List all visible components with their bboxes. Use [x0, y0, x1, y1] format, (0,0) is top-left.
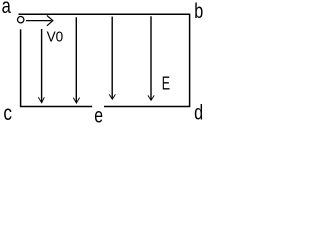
svg-text:a: a	[2, 0, 11, 18]
svg-text:V0: V0	[47, 29, 64, 46]
field arrow 2 head	[73, 98, 79, 104]
plate right edge b-d	[189, 14, 191, 106]
svg-text:E: E	[162, 72, 170, 93]
svg-text:c: c	[3, 101, 12, 123]
plate left edge a-c	[20, 29, 22, 106]
plate bottom edge e-d segment	[104, 106, 190, 108]
svg-text:e: e	[94, 104, 103, 123]
svg-text:d: d	[194, 100, 203, 123]
field arrow 1 shaft	[41, 29, 43, 102]
field arrow 3 shaft	[111, 17, 113, 99]
velocity arrow shaft v0	[26, 20, 52, 22]
plate top edge a-b	[19, 13, 191, 15]
field arrow 1 head	[38, 97, 44, 103]
field arrow 4 shaft	[150, 16, 152, 100]
plate bottom edge c-e segment	[20, 106, 92, 108]
field arrow 3 head	[109, 94, 115, 99]
field arrow 2 shaft	[75, 17, 77, 102]
charge circle at corner a	[18, 17, 24, 23]
velocity arrowhead	[47, 16, 53, 26]
svg-text:b: b	[194, 0, 203, 23]
field arrow 4 head	[148, 95, 154, 100]
